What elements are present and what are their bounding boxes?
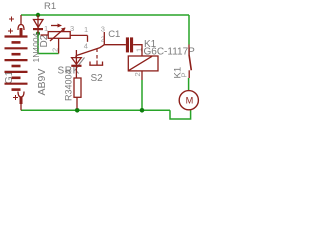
svg-text:AB9V: AB9V — [36, 69, 48, 96]
svg-text:S2: S2 — [91, 73, 104, 84]
svg-text:R1: R1 — [44, 1, 56, 12]
svg-text:4: 4 — [84, 42, 88, 51]
svg-text:1: 1 — [44, 24, 48, 33]
svg-text:2: 2 — [133, 72, 142, 76]
svg-text:1: 1 — [84, 25, 88, 34]
svg-text:M: M — [186, 95, 194, 105]
svg-text:C1: C1 — [108, 29, 120, 40]
svg-text:K1: K1 — [173, 67, 184, 79]
svg-text:R34004: R34004 — [64, 69, 74, 101]
